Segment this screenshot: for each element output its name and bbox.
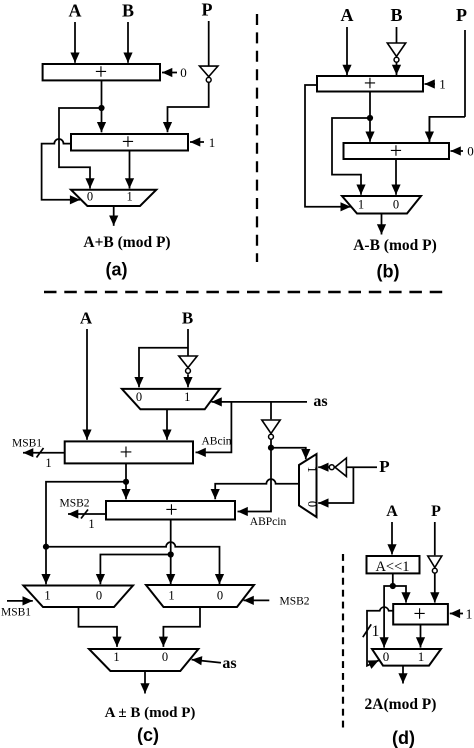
svg-text:+: + (413, 601, 425, 626)
svg-text:1: 1 (305, 466, 319, 472)
svg-text:MSB1: MSB1 (12, 438, 42, 450)
svg-text:+: + (165, 497, 177, 522)
svg-text:MSB1: MSB1 (1, 607, 31, 619)
svg-text:A: A (386, 503, 398, 520)
svg-text:MSB2: MSB2 (279, 595, 309, 607)
svg-text:0: 0 (393, 198, 399, 212)
svg-text:A-B (mod P): A-B (mod P) (353, 237, 437, 254)
svg-text:(b): (b) (377, 262, 400, 282)
svg-text:ABPcin: ABPcin (250, 516, 287, 528)
svg-text:as: as (313, 393, 327, 410)
svg-text:0: 0 (217, 589, 223, 603)
svg-text:1: 1 (358, 198, 364, 212)
svg-text:A: A (80, 309, 93, 328)
svg-text:+: + (122, 129, 134, 154)
svg-text:1: 1 (113, 650, 119, 664)
svg-text:P: P (202, 0, 213, 20)
svg-text:P: P (431, 503, 441, 520)
svg-text:A: A (341, 5, 354, 25)
svg-text:0: 0 (96, 589, 102, 603)
svg-text:0: 0 (136, 390, 142, 404)
svg-text:1: 1 (372, 623, 380, 640)
svg-text:A+B (mod P): A+B (mod P) (83, 234, 170, 251)
svg-text:B: B (390, 5, 402, 25)
svg-text:B: B (122, 1, 134, 21)
svg-text:P: P (379, 457, 389, 476)
svg-text:(c): (c) (137, 725, 159, 745)
svg-text:A: A (69, 1, 82, 21)
svg-text:1: 1 (184, 390, 190, 404)
svg-text:(a): (a) (106, 260, 128, 280)
svg-text:+: + (120, 440, 133, 465)
svg-text:+: + (95, 59, 107, 84)
svg-text:1: 1 (439, 77, 446, 92)
svg-text:1: 1 (466, 608, 473, 623)
svg-text:ABcin: ABcin (201, 436, 231, 448)
svg-text:1: 1 (126, 190, 132, 204)
svg-text:1: 1 (45, 456, 51, 470)
svg-text:(d): (d) (392, 728, 415, 748)
svg-text:0: 0 (87, 190, 93, 204)
svg-text:MSB2: MSB2 (59, 498, 89, 510)
svg-text:+: + (364, 71, 376, 96)
svg-text:0: 0 (162, 650, 168, 664)
svg-text:1: 1 (168, 589, 174, 603)
svg-text:B: B (182, 309, 193, 328)
svg-text:0: 0 (305, 501, 319, 507)
svg-text:0: 0 (467, 144, 474, 159)
svg-text:0: 0 (383, 649, 390, 664)
svg-text:A<<1: A<<1 (375, 559, 409, 575)
svg-text:A ± B (mod P): A ± B (mod P) (105, 705, 196, 721)
svg-text:1: 1 (209, 135, 216, 150)
svg-text:as: as (222, 655, 236, 672)
svg-text:P: P (456, 5, 467, 25)
svg-text:1: 1 (88, 517, 94, 531)
svg-text:+: + (390, 138, 402, 163)
svg-text:1: 1 (44, 589, 50, 603)
svg-text:0: 0 (180, 65, 187, 80)
svg-text:1: 1 (418, 649, 425, 664)
svg-text:2A(mod P): 2A(mod P) (365, 696, 437, 713)
